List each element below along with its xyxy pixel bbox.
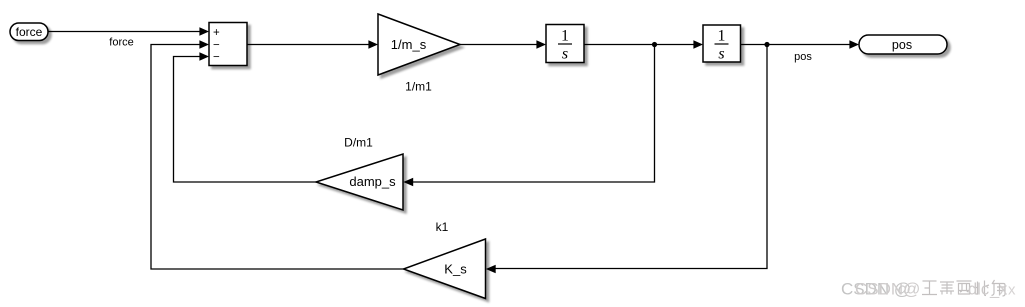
svg-text:+: +: [213, 27, 220, 39]
svg-text:x: x: [1008, 282, 1016, 299]
svg-text:force: force: [109, 36, 133, 48]
svg-text:−: −: [213, 52, 220, 64]
svg-text:−: −: [213, 40, 220, 52]
svg-text:1/m1: 1/m1: [405, 80, 432, 94]
svg-text:_x: _x: [989, 281, 1008, 299]
svg-text:CSDN@: CSDN@: [855, 280, 920, 299]
svg-text:1/m_s: 1/m_s: [391, 37, 427, 52]
svg-text:force: force: [16, 25, 43, 39]
svg-text:s: s: [718, 46, 724, 63]
svg-text:k1: k1: [436, 220, 449, 234]
svg-text:pos: pos: [892, 38, 912, 52]
svg-text:1: 1: [718, 28, 726, 45]
svg-text:s: s: [562, 46, 568, 63]
svg-text:D/m1: D/m1: [344, 136, 373, 150]
svg-text:K_s: K_s: [444, 262, 467, 277]
svg-text:dlc: dlc: [968, 281, 989, 299]
svg-text:pos: pos: [794, 51, 812, 63]
svg-text:1: 1: [561, 28, 569, 45]
svg-text:damp_s: damp_s: [349, 174, 396, 189]
